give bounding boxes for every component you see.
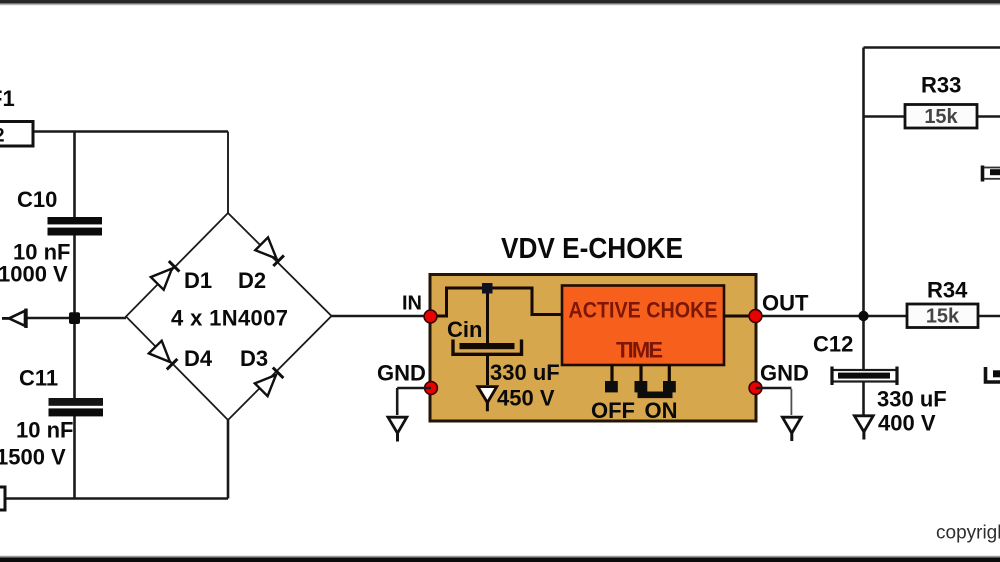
terminal GND left (red) [425,382,438,395]
capacitor C11 [49,398,104,406]
wire vertical C11 to bottom rail [73,416,76,499]
svg-text:450 V: 450 V [497,386,555,411]
svg-text:VDV E-CHOKE: VDV E-CHOKE [501,233,683,265]
wire OUT to R34 node [762,315,907,318]
switch pin stubs [612,365,669,382]
svg-text:4 x 1N4007: 4 x 1N4007 [171,306,288,331]
svg-text:400 V: 400 V [878,411,936,436]
svg-text:R34: R34 [927,278,968,303]
wire C12 to ground [862,383,865,417]
wire vertical x74 fuse rail to C10 [73,132,76,218]
top border bar [0,0,1000,4]
wire R33 right [977,115,1000,118]
wire bridge top drop [227,132,229,215]
wire GND left to ground [397,388,431,415]
choke module body [430,275,756,422]
terminal GND right (red) [749,382,762,395]
ground arrow (Cin) [478,387,497,412]
svg-text:2: 2 [0,126,5,147]
junction node (OUT / C12) [858,311,868,321]
svg-text:D4: D4 [184,346,213,371]
svg-text:1000 V: 1000 V [0,262,68,287]
terminal IN (red) [424,310,437,323]
capacitor C10 [48,217,103,224]
svg-text:15k: 15k [926,306,960,328]
svg-text:Cin: Cin [447,317,482,342]
active choke inner block [562,286,724,366]
junction node (AC mid rail) [69,312,80,324]
diode D4 [149,341,178,370]
inner wire IN stub [430,287,755,386]
svg-text:15k: 15k [924,106,958,128]
svg-text:OUT: OUT [762,291,809,316]
svg-text:330 uF: 330 uF [877,387,947,412]
bottom border bar [0,557,1000,562]
resistor R33 [905,105,977,129]
svg-text:330 uF: 330 uF [490,360,560,385]
svg-text:D2: D2 [238,268,266,293]
svg-text:D1: D1 [184,268,212,293]
wire R34 right [978,315,1000,318]
capacitor (cut, top right) [983,166,1000,182]
svg-text:C10: C10 [17,187,57,212]
svg-text:C11: C11 [19,366,58,391]
svg-text:C12: C12 [813,332,853,357]
switch pad ON 2 [663,381,676,392]
wire right vertical [862,48,865,371]
svg-text:10 nF: 10 nF [16,418,73,443]
resistor R34 [907,304,978,328]
AC input arrow (left connector) [2,309,26,329]
svg-text:ON: ON [645,398,678,423]
ground arrow (GND left) [388,417,407,441]
capacitor (cut, bottom right) [986,367,1000,382]
fuse F1 [0,122,33,147]
wire AC arrow to bridge left vertex [26,317,126,320]
wire vertical C10 to C11 [73,235,76,399]
svg-text:GND: GND [377,361,426,386]
ground arrow (GND right) [782,417,801,441]
svg-text:OFF: OFF [591,398,635,423]
terminal OUT (red) [749,310,762,323]
wire top right rail [864,46,1000,49]
capacitor C12 [832,367,897,386]
wire GND right to ground [756,387,792,390]
bridge diamond [126,213,332,420]
diode D3 [255,368,284,397]
switch pad OFF [605,381,618,392]
svg-text:ACTIVE CHOKE: ACTIVE CHOKE [569,298,718,323]
svg-text:copyright: copyright [936,523,1000,544]
ground arrow (C12) [854,416,873,440]
diode D1 [151,261,180,290]
wire top rail from fuse to bridge top [33,130,228,133]
svg-text:D3: D3 [240,346,268,371]
switch pad ON 1 [635,381,648,392]
svg-text:R33: R33 [921,73,961,98]
diode D2 [255,237,284,266]
ON jumper bar [638,392,673,399]
svg-text:IN: IN [402,293,422,315]
svg-text:F1: F1 [0,86,15,111]
svg-text:GND: GND [760,361,809,386]
bottom left connector [0,487,5,510]
junction node (choke input) [482,283,493,294]
svg-text:1500 V: 1500 V [0,445,66,470]
wire R33 left [864,115,906,118]
wire bridge bottom drop [227,420,230,499]
wire bridge right vertex to IN [332,315,427,318]
wire bottom rail [5,497,228,500]
svg-text:TIME: TIME [616,338,663,363]
capacitor Cin [453,340,522,355]
